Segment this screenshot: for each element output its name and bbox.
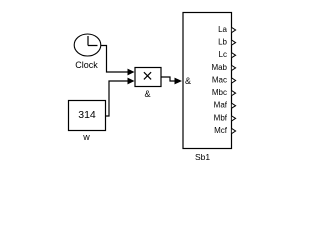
svg-text:Lc: Lc xyxy=(219,50,227,59)
product block xyxy=(135,68,161,87)
svg-text:Mbf: Mbf xyxy=(214,113,228,122)
output port label Lb xyxy=(218,38,227,47)
output port label Lc xyxy=(219,50,227,59)
output port marker Mcf xyxy=(232,129,236,134)
svg-text:Clock: Clock xyxy=(75,60,98,70)
output port marker Lc xyxy=(232,53,236,58)
subsystem block Sb1 (body) xyxy=(183,13,232,149)
wire clock output to product input 1 xyxy=(101,46,135,76)
svg-text:Sb1: Sb1 xyxy=(195,152,210,162)
input port label & xyxy=(185,76,191,86)
output port label Mbf xyxy=(214,113,228,122)
label & (product block name) xyxy=(144,89,150,99)
label Clock xyxy=(75,60,98,70)
output port label Mcf xyxy=(214,126,228,135)
wire product output to subsystem input xyxy=(161,77,182,84)
output port marker Mac xyxy=(232,78,236,83)
label Sb1 xyxy=(195,152,210,162)
output port label Mab xyxy=(211,63,227,72)
output port marker Mab xyxy=(232,66,236,71)
output port marker La xyxy=(232,28,236,33)
output port label Mbc xyxy=(212,88,227,97)
wire constant to product input 2 xyxy=(106,78,135,116)
clock block (ellipse body) xyxy=(74,34,101,56)
svg-text:&: & xyxy=(185,76,191,86)
output port label Mac xyxy=(212,76,227,85)
svg-text:Lb: Lb xyxy=(218,38,227,47)
output port marker Lb xyxy=(232,40,236,45)
output port label Maf xyxy=(214,101,228,110)
output port marker Maf xyxy=(232,103,236,108)
svg-text:&: & xyxy=(144,89,150,99)
constant block 314 xyxy=(69,101,106,131)
svg-text:Mac: Mac xyxy=(212,76,227,85)
svg-text:La: La xyxy=(218,25,227,34)
svg-text:Maf: Maf xyxy=(214,101,228,110)
output port marker Mbf xyxy=(232,116,236,121)
svg-text:Mcf: Mcf xyxy=(214,126,228,135)
svg-text:314: 314 xyxy=(78,109,96,121)
svg-text:Mab: Mab xyxy=(211,63,227,72)
svg-text:Mbc: Mbc xyxy=(212,88,227,97)
svg-text:w: w xyxy=(82,132,90,142)
label w xyxy=(82,132,90,142)
output port marker Mbc xyxy=(232,91,236,96)
output port label La xyxy=(218,25,227,34)
